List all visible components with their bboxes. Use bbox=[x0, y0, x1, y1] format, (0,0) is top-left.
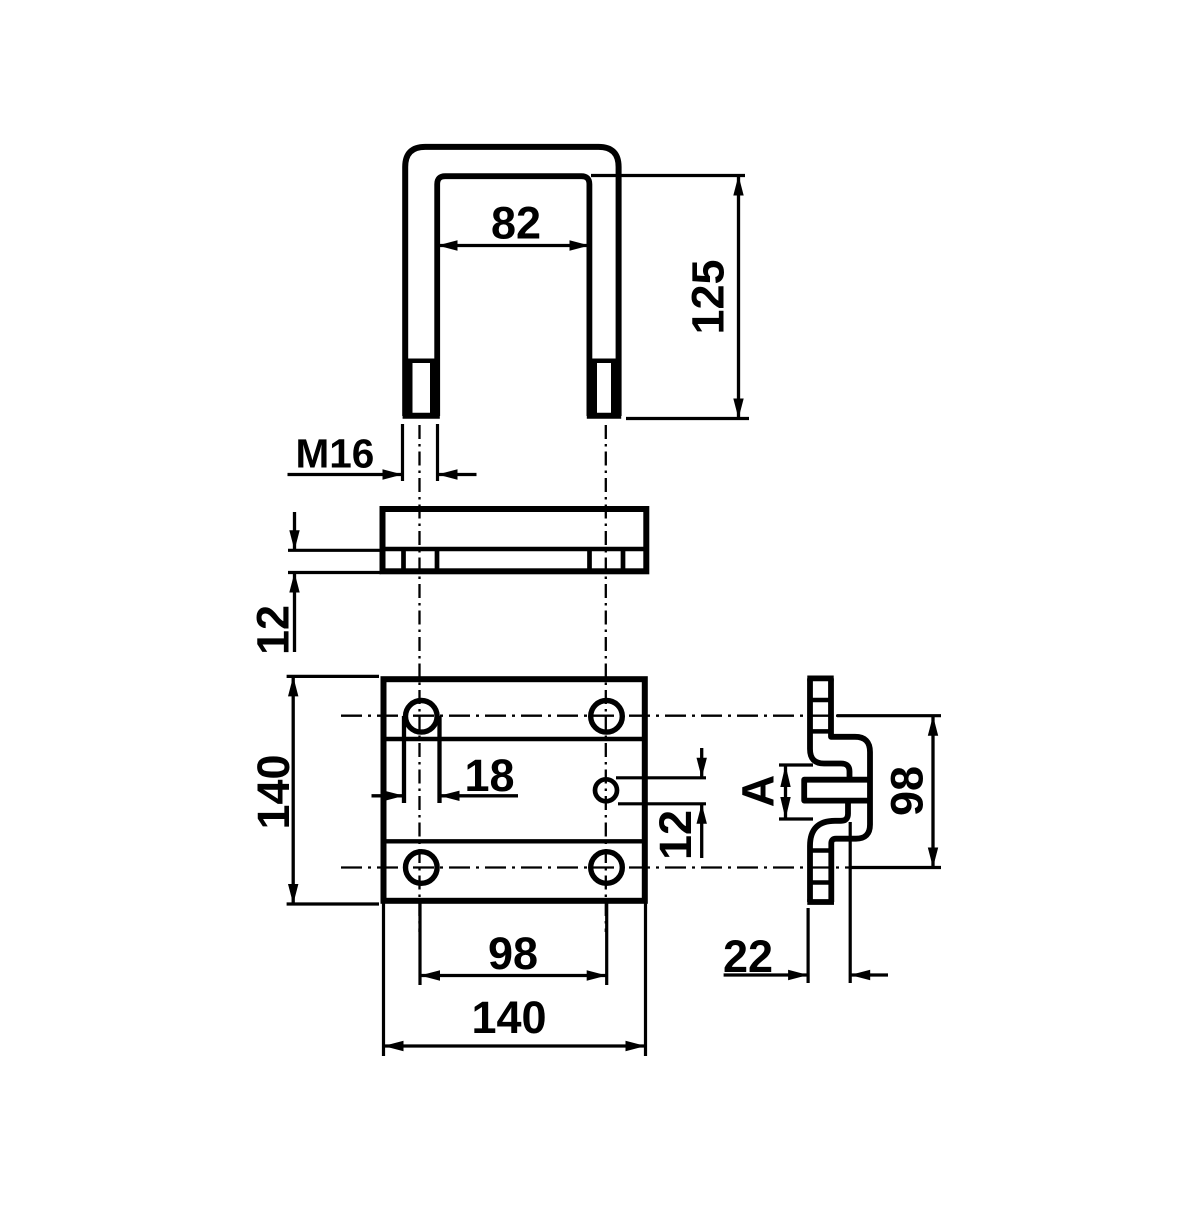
dimension 22 right extension line bbox=[849, 822, 852, 983]
dimension 98 right bottom arrow bbox=[928, 848, 938, 868]
dimension 18 right extension line bbox=[437, 716, 441, 803]
dimension 12 upper line and arrow bbox=[293, 512, 296, 550]
dimension A top extension line bbox=[779, 763, 813, 766]
svg-text:125: 125 bbox=[683, 259, 734, 334]
hole bottom-left bbox=[406, 852, 438, 884]
dimension 82 left arrow bbox=[438, 240, 458, 250]
dimension 98 bottom left arrow bbox=[420, 970, 440, 980]
side view bottom flange left edge with lower notch bbox=[810, 801, 848, 902]
svg-text:98: 98 bbox=[882, 766, 933, 816]
dimension 140 left bottom arrow bbox=[288, 884, 298, 904]
dimension 140 bottom left arrow bbox=[384, 1041, 404, 1051]
M16 right extension line bbox=[436, 424, 439, 481]
side view top edge bbox=[807, 676, 833, 682]
dimension 125 bottom extension line bbox=[626, 417, 749, 420]
dimension 12 upper line and arrow (small hole) bbox=[700, 748, 703, 778]
right leg thread root lines bbox=[595, 363, 614, 413]
dimension 98 right bottom extension line bbox=[850, 866, 941, 869]
svg-text:M16: M16 bbox=[296, 431, 375, 477]
svg-text:18: 18 bbox=[464, 750, 514, 801]
top holes centerline bbox=[341, 715, 838, 717]
hole bottom-right bbox=[591, 852, 623, 884]
dimension 98 bottom right extension line bbox=[605, 903, 608, 985]
top plate right hole edges bbox=[590, 549, 624, 571]
svg-text:82: 82 bbox=[491, 198, 541, 249]
dimension 125 top extension line bbox=[591, 174, 745, 177]
dimension 140 bottom line bbox=[384, 1044, 646, 1047]
top plate inner line bbox=[383, 547, 647, 551]
dimension 98 bottom right arrow bbox=[587, 970, 607, 980]
dimension 98 right top extension line bbox=[837, 714, 941, 717]
dimension 82 right arrow bbox=[570, 240, 590, 250]
dimension 12 top extension line (small hole) bbox=[616, 776, 706, 779]
dimension 18 left extension line bbox=[402, 716, 406, 803]
dimension A bottom arrow bbox=[780, 797, 790, 819]
M16 dimension right arrow bbox=[438, 469, 458, 479]
dimension 140 left top arrow bbox=[288, 676, 298, 696]
svg-text:140: 140 bbox=[471, 992, 546, 1043]
dimension A bottom extension line bbox=[779, 817, 813, 820]
dimension 125 line bbox=[737, 177, 740, 417]
dimension 12 bottom extension line (small hole) bbox=[618, 802, 706, 805]
svg-text:22: 22 bbox=[723, 931, 773, 982]
M16 dimension left line bbox=[288, 473, 403, 476]
top plate left hole edges bbox=[404, 549, 438, 571]
hole top-left bbox=[406, 701, 438, 733]
side view top hole edge lines bbox=[810, 700, 831, 731]
right leg centerline bbox=[605, 425, 607, 932]
side view bottom edge bbox=[807, 899, 834, 905]
top plate outline (side view) bbox=[383, 509, 647, 571]
svg-text:A: A bbox=[733, 775, 784, 808]
svg-text:98: 98 bbox=[488, 928, 538, 979]
dimension 140 left top extension line bbox=[287, 675, 379, 678]
dimension 18 right line and arrow bbox=[440, 794, 519, 797]
dimension 12 top extension line (top plate) bbox=[288, 549, 381, 552]
dimension 98 bottom left extension line bbox=[418, 903, 421, 985]
bottom plate upper inner line bbox=[384, 737, 645, 741]
side view tongue bbox=[804, 780, 870, 801]
svg-text:140: 140 bbox=[248, 754, 299, 829]
dimension 140 bottom right extension line bbox=[644, 903, 647, 1056]
dimension 12 lower line and arrow (small hole) bbox=[700, 804, 703, 858]
dimension 98 right top arrow bbox=[928, 716, 938, 736]
dimension 140 bottom right arrow bbox=[626, 1041, 646, 1051]
dimension A top arrow bbox=[780, 765, 790, 787]
dimension 125 bottom arrow bbox=[733, 399, 743, 419]
dimension 98 bottom line bbox=[420, 974, 607, 977]
hole top-right bbox=[591, 701, 623, 733]
dimension 22 left extension line bbox=[806, 908, 809, 983]
M16 dimension right line bbox=[438, 473, 477, 476]
side view bottom hole edge lines bbox=[810, 851, 831, 883]
bottom holes centerline bbox=[341, 866, 850, 868]
dimension A line bbox=[784, 765, 787, 819]
svg-text:12: 12 bbox=[248, 605, 299, 655]
U-bolt outer profile bbox=[405, 147, 618, 416]
dimension 12 bottom extension line (top plate) bbox=[288, 571, 381, 574]
left leg centerline bbox=[418, 425, 420, 932]
dimension 12 lower line and arrow bbox=[293, 573, 296, 653]
dimension 125 top arrow bbox=[733, 176, 743, 196]
small center hole bbox=[595, 779, 617, 801]
dimension 140 bottom left extension line bbox=[382, 903, 385, 1056]
right leg thread start line bbox=[589, 359, 618, 364]
left leg thread start line bbox=[405, 359, 437, 364]
svg-text:12: 12 bbox=[650, 810, 701, 860]
bottom plate outline (front view) bbox=[384, 679, 645, 901]
dimension 22 right line and arrow bbox=[850, 973, 888, 976]
dimension 140 left line bbox=[292, 678, 295, 904]
dimension 98 right line bbox=[931, 717, 934, 867]
U-bolt left leg bottom cap bbox=[403, 413, 440, 419]
dimension 82 line bbox=[438, 244, 590, 247]
dimension 22 left line and arrow bbox=[724, 973, 809, 976]
dimension 140 left bottom extension line bbox=[287, 902, 379, 905]
side view top flange left edge with upper notch bbox=[810, 678, 850, 779]
M16 left extension line bbox=[401, 424, 404, 481]
dimension 18 left line and arrow bbox=[372, 794, 405, 797]
side view right edge with shoulders bbox=[831, 678, 870, 902]
U-bolt inner profile bbox=[437, 176, 589, 416]
bottom plate lower inner line bbox=[384, 839, 645, 843]
left leg thread root lines bbox=[410, 363, 433, 413]
U-bolt right leg bottom cap bbox=[587, 413, 621, 419]
M16 dimension left arrow bbox=[383, 469, 403, 479]
